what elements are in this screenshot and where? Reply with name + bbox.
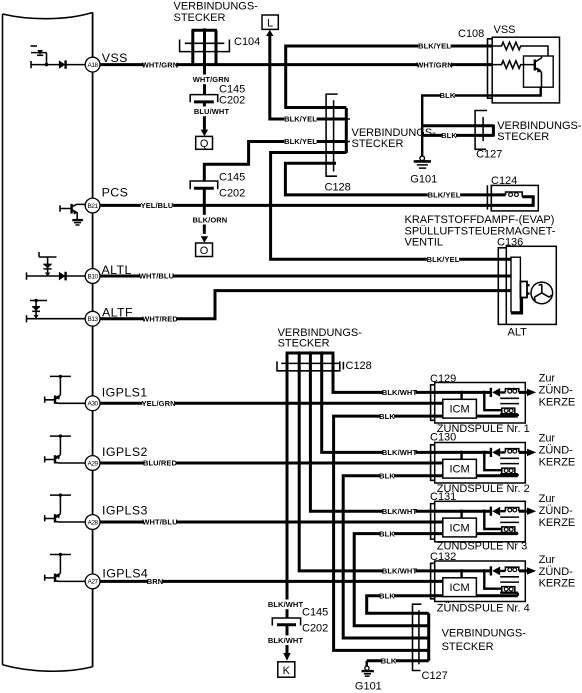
junction connector C128 (lower) xyxy=(277,351,340,371)
svg-text:BLK: BLK xyxy=(440,91,456,100)
shorting connector C127 (upper) xyxy=(475,111,493,150)
svg-text:Zur: Zur xyxy=(539,433,556,445)
C128 lower label leader xyxy=(342,362,344,370)
terminal box O xyxy=(196,243,213,257)
svg-text:C124: C124 xyxy=(491,175,517,187)
wire C128 pin3 to C145/C202 (BLK/YEL) xyxy=(204,142,346,182)
svg-text:SPÜLLUFTSTEUERMAGNET-: SPÜLLUFTSTEUERMAGNET- xyxy=(405,225,556,237)
coil 1 output arrow to spark plug xyxy=(519,389,536,396)
ALT internal thick link xyxy=(511,298,522,314)
IGPLS2 internal transistor (pin) xyxy=(45,434,86,463)
svg-text:BLK/WHT: BLK/WHT xyxy=(268,600,304,609)
wire label BLK/WHT at (400,511) xyxy=(382,506,418,516)
svg-text:A27: A27 xyxy=(88,579,99,586)
coil 1 primary winding xyxy=(500,389,519,393)
wire YEL/BLU PCS to C124 xyxy=(100,197,533,206)
svg-text:IGPLS4: IGPLS4 xyxy=(102,566,148,580)
svg-text:C131: C131 xyxy=(430,491,456,503)
IGPLS3 internal transistor (pin) xyxy=(45,493,86,522)
svg-text:WHT/RED: WHT/RED xyxy=(142,314,178,323)
svg-text:C145: C145 xyxy=(219,172,245,184)
C128 leg5 to coil 1 feed xyxy=(333,371,435,393)
ALTL internal zener+diode (B10) xyxy=(27,252,86,280)
svg-text:B21: B21 xyxy=(88,203,99,210)
coil 3 primary winding xyxy=(500,508,519,512)
coil 2 secondary winding xyxy=(500,468,518,476)
svg-text:KERZE: KERZE xyxy=(539,517,576,529)
coil 4 node dots and drops xyxy=(460,569,502,589)
wire label BLK at (387,476) xyxy=(379,471,395,481)
ALTF internal zener (B13) xyxy=(27,299,86,323)
svg-text:IGPLS2: IGPLS2 xyxy=(102,445,148,459)
wire label BLK/YEL at (434,46) xyxy=(418,41,451,51)
coil 3 BLK/WHT feed wire inside xyxy=(435,510,491,513)
wire BLK/YEL C108 branch down to C128 pin1 xyxy=(286,46,493,108)
wire label WHT/BLU at (160,522) xyxy=(142,517,177,527)
wire label BLK/YEL at (443,259) xyxy=(427,255,460,265)
wire label WHT/RED at (160,319) xyxy=(142,314,178,324)
wire C128 pin5 to C124 (BLK/YEL) xyxy=(285,163,505,195)
coil 4 output arrow to spark plug xyxy=(519,567,536,574)
wire IGPLS3 to ICM coil 3 xyxy=(100,521,443,524)
svg-text:ZÜND-: ZÜND- xyxy=(539,566,574,578)
solenoid coil inside C124 xyxy=(506,192,523,197)
diode D1 xyxy=(491,388,500,397)
wire WHT/BLU ALTL to ALT xyxy=(100,275,511,278)
ICM module U3 xyxy=(443,518,477,537)
svg-text:C108: C108 xyxy=(458,28,484,40)
terminal box K xyxy=(278,662,295,677)
svg-text:KERZE: KERZE xyxy=(539,578,576,590)
svg-text:KERZE: KERZE xyxy=(539,397,576,409)
svg-text:B13: B13 xyxy=(88,316,99,323)
svg-text:K: K xyxy=(283,665,291,677)
svg-text:C127: C127 xyxy=(476,148,502,160)
svg-text:O: O xyxy=(200,245,209,257)
svg-text:BLK: BLK xyxy=(379,591,395,600)
C128 leg2 to coil 4 feed xyxy=(299,371,435,571)
coil 3 output arrow to spark plug xyxy=(519,508,536,515)
svg-text:C104: C104 xyxy=(234,36,260,48)
svg-text:G101: G101 xyxy=(355,680,382,692)
terminal box Q xyxy=(196,136,213,150)
IGPLS1 internal transistor (pin) xyxy=(45,375,86,404)
svg-text:BLK/WHT: BLK/WHT xyxy=(268,636,304,645)
wire label WHT/GRN at (160,65) xyxy=(142,60,179,70)
arrow into [K] xyxy=(283,653,290,661)
wire from [L] box down to C128 pin2 xyxy=(270,35,347,119)
coil 1 BLK/WHT feed wire inside xyxy=(435,391,491,394)
ECU pin A30 xyxy=(85,396,100,411)
wire IGPLS2 to ICM coil 2 xyxy=(100,462,443,465)
arrow into [O] xyxy=(201,236,208,243)
svg-text:KRAFTSTOFFDAMPF-(EVAP): KRAFTSTOFFDAMPF-(EVAP) xyxy=(405,214,555,226)
coil 2 core lines xyxy=(500,458,519,463)
svg-text:C128: C128 xyxy=(346,360,372,372)
svg-text:C130: C130 xyxy=(430,432,456,444)
PCS internal transistor + ground (B21) xyxy=(60,204,85,225)
svg-text:Q: Q xyxy=(200,138,209,150)
coil 2 output arrow to spark plug xyxy=(519,449,536,456)
svg-text:VERBINDUNGS-: VERBINDUNGS- xyxy=(442,628,527,640)
svg-text:G101: G101 xyxy=(410,174,437,186)
svg-text:VENTIL: VENTIL xyxy=(405,237,444,249)
svg-text:VERBINDUNGS-: VERBINDUNGS- xyxy=(174,1,259,13)
svg-text:ICM: ICM xyxy=(450,464,470,476)
ECU pin A18 xyxy=(85,57,100,72)
inline connector C145/C202 below PCS wire junction xyxy=(190,181,218,189)
coil 1 BLK ground wire inside xyxy=(435,415,518,418)
svg-text:STECKER: STECKER xyxy=(442,641,494,653)
wire label YEL/GRN at (159,403) xyxy=(142,398,176,408)
svg-text:ICM: ICM xyxy=(450,404,470,416)
label Zur Zuendkerze 2 xyxy=(539,433,576,469)
wire label BLU/RED at (160,463) xyxy=(143,458,178,468)
ECU pin rail xyxy=(92,13,94,667)
svg-text:YEL/BLU: YEL/BLU xyxy=(141,201,174,210)
junction connector C128 (upper) xyxy=(270,94,350,176)
coil 4 BLK ground wire inside xyxy=(435,594,518,597)
ECU pin B21 xyxy=(85,198,100,213)
svg-text:WHT/GRN: WHT/GRN xyxy=(416,60,453,69)
wire label BLK/WHT at (400,571) xyxy=(382,566,418,576)
alternator C136 box xyxy=(498,246,556,324)
wire label BLK at (387,416) xyxy=(379,411,395,421)
svg-text:ZÜNDSPULE Nr. 4: ZÜNDSPULE Nr. 4 xyxy=(437,602,530,614)
svg-text:ALT: ALT xyxy=(508,327,528,339)
svg-text:PCS: PCS xyxy=(102,185,129,199)
wire label YEL/BLU at (157,205) xyxy=(141,201,174,211)
wire BLK coil2 return to C127 xyxy=(343,476,435,638)
svg-text:C202: C202 xyxy=(302,623,328,635)
diode D4 xyxy=(491,566,500,575)
svg-text:BRN: BRN xyxy=(147,577,164,586)
coil 2 primary winding xyxy=(500,449,519,453)
inline connector C145/C202 below C104 xyxy=(190,95,218,131)
svg-text:KERZE: KERZE xyxy=(539,457,576,469)
svg-text:IGPLS1: IGPLS1 xyxy=(102,386,148,400)
diode D2 xyxy=(491,448,500,457)
svg-text:BLK/YEL: BLK/YEL xyxy=(427,255,460,264)
wire BLK/ORN to [O] xyxy=(203,189,206,234)
wire BLK coil4 return to C127 xyxy=(367,596,435,614)
svg-text:A28: A28 xyxy=(88,519,99,526)
svg-text:BLK/WHT: BLK/WHT xyxy=(382,507,418,516)
EVAP purge solenoid valve C124 xyxy=(487,185,538,211)
wire label BLK/WHT at (286,604) xyxy=(268,600,304,610)
ICM module U4 xyxy=(443,578,477,597)
svg-text:BLK: BLK xyxy=(441,131,457,140)
svg-text:ZÜND-: ZÜND- xyxy=(539,505,574,517)
svg-text:STECKER: STECKER xyxy=(278,338,330,350)
svg-text:BLK/YEL: BLK/YEL xyxy=(284,115,317,124)
wire label WHT/GRN at (211,79) xyxy=(193,75,230,85)
svg-text:STECKER: STECKER xyxy=(174,12,226,24)
svg-text:ZÜND-: ZÜND- xyxy=(539,385,574,397)
wire BLK from C108 transistor xyxy=(492,87,541,95)
ALT internal regulator block xyxy=(520,282,529,298)
wire BLK branch to C127 (pin1) xyxy=(422,124,493,127)
svg-text:ICM: ICM xyxy=(450,522,470,534)
wire label WHT/BLU at (156,276) xyxy=(139,271,174,281)
junction connector C127 (lower) xyxy=(413,604,429,670)
coil 1 node dots and drops xyxy=(460,391,502,411)
svg-text:BLK/WHT: BLK/WHT xyxy=(382,388,418,397)
wire label BLK at (389,661) xyxy=(381,656,397,666)
C128 leg3 to coil 3 feed xyxy=(310,371,435,511)
wire label BLK/WHT at (400,392) xyxy=(382,388,418,398)
ignition coil unit 1 (C129) box xyxy=(431,383,526,424)
arrow into [Q] xyxy=(201,130,208,137)
svg-text:Zur: Zur xyxy=(539,493,556,505)
svg-text:C202: C202 xyxy=(219,94,245,106)
ICM module U1 xyxy=(443,399,477,418)
wire label WHT/GRN at (434,65) xyxy=(416,60,453,70)
svg-text:BLK: BLK xyxy=(379,471,395,480)
C128 leg1 down to C145/K xyxy=(286,371,289,618)
ECU pin A29 xyxy=(85,456,100,471)
svg-text:BLU/WHT: BLU/WHT xyxy=(194,107,230,116)
IGPLS4 internal transistor (pin) xyxy=(45,553,86,582)
wire BLK coil1 return to C127 xyxy=(334,416,435,650)
coil 4 BLK/WHT feed wire inside xyxy=(435,569,491,572)
svg-text:C145: C145 xyxy=(302,607,328,619)
wire WHT/GRN A18 to C108 xyxy=(100,63,492,66)
ground G101 (lower) xyxy=(362,661,374,676)
resistor inside C108 (upper) xyxy=(492,42,548,56)
wire label BLK at (387,534) xyxy=(379,529,395,539)
svg-text:C129: C129 xyxy=(430,373,456,385)
ALT fan/generator symbol xyxy=(531,282,553,304)
wire label BLK/WHT at (286,640) xyxy=(268,635,304,645)
svg-text:IGPLS3: IGPLS3 xyxy=(102,504,148,518)
label Zur Zuendkerze 1 xyxy=(539,373,576,409)
label Zur Zuendkerze 3 xyxy=(539,493,576,529)
ECU (Motorsteuergeraet) outline xyxy=(3,13,93,672)
coil 3 BLK ground wire inside xyxy=(435,532,518,535)
coil 3 core lines xyxy=(500,517,519,522)
svg-text:BLU/RED: BLU/RED xyxy=(143,459,178,468)
wire label BLK/YEL at (300,119) xyxy=(284,114,317,124)
svg-text:BLK/WHT: BLK/WHT xyxy=(382,567,418,576)
coil 2 BLK ground wire inside xyxy=(435,474,518,477)
svg-text:BLK/ORN: BLK/ORN xyxy=(192,215,227,224)
wire label BLK at (449,135) xyxy=(441,131,457,141)
ICM module U2 xyxy=(443,459,477,478)
svg-text:BLK: BLK xyxy=(379,412,395,421)
svg-text:BLK/YEL: BLK/YEL xyxy=(428,191,461,200)
svg-text:WHT/BLU: WHT/BLU xyxy=(142,518,177,527)
svg-text:A30: A30 xyxy=(88,401,99,408)
inline connector C145/C202 (bottom) xyxy=(272,618,300,654)
svg-text:STECKER: STECKER xyxy=(497,131,549,143)
svg-text:BLK/WHT: BLK/WHT xyxy=(382,448,418,457)
wire label BLK/ORN at (210,220) xyxy=(192,215,227,225)
wire BLK coil3 return to C127 xyxy=(354,534,435,626)
svg-text:BLK: BLK xyxy=(381,657,397,666)
wire label BLU/WHT at (212,111) xyxy=(194,107,230,117)
ECU pin B10 xyxy=(85,269,100,284)
transistor block inside C108 xyxy=(524,56,554,87)
junction connector C104 xyxy=(180,28,230,94)
wire IGPLS4 to ICM coil 4 xyxy=(100,580,443,583)
ignition coil unit 4 (C132) box xyxy=(431,561,526,602)
coil 4 core lines xyxy=(500,577,519,582)
coil 2 BLK/WHT feed wire inside xyxy=(435,451,491,454)
wire BLK C108 to ground G101 xyxy=(422,96,492,157)
svg-text:C127: C127 xyxy=(422,670,448,682)
coil 1 secondary winding xyxy=(500,408,518,416)
ALT internal connector strip xyxy=(511,257,520,312)
ECU pin B13 xyxy=(85,311,100,326)
svg-text:C132: C132 xyxy=(430,551,456,563)
svg-text:C128: C128 xyxy=(325,182,351,194)
VSS sensor C108 box xyxy=(488,37,560,103)
C128 leg4 to coil 2 feed xyxy=(322,371,435,453)
coil 4 secondary winding xyxy=(500,587,518,596)
ignition coil unit 3 (C131) box xyxy=(431,501,526,542)
wire label BLK/YEL at (300,142) xyxy=(284,137,317,147)
ground symbol G101 (upper) xyxy=(414,156,431,168)
svg-text:L: L xyxy=(267,18,273,30)
svg-text:BLK/YEL: BLK/YEL xyxy=(418,42,451,51)
svg-text:YEL/GRN: YEL/GRN xyxy=(142,399,176,408)
coil 4 primary winding xyxy=(500,567,519,571)
wire BLK branch to C127 (pin2) xyxy=(422,134,493,137)
svg-text:ZÜND-: ZÜND- xyxy=(539,445,574,457)
wire label BRN at (155,581) xyxy=(147,577,164,587)
ignition coil unit 2 (C130) box xyxy=(431,443,526,484)
svg-text:BLK: BLK xyxy=(379,529,395,538)
coil 3 secondary winding xyxy=(500,527,518,534)
svg-text:ICM: ICM xyxy=(450,582,470,594)
svg-text:VSS: VSS xyxy=(494,24,516,36)
coil 3 node dots and drops xyxy=(460,509,502,529)
wire label BLK at (448,96) xyxy=(440,91,456,101)
svg-text:BLK/YEL: BLK/YEL xyxy=(284,137,317,146)
wire WHT/RED ALTF to ALT xyxy=(100,291,511,319)
svg-text:Zur: Zur xyxy=(539,373,556,385)
svg-text:A29: A29 xyxy=(88,460,99,467)
wire BLK ground rung to C127 xyxy=(367,659,429,662)
svg-text:C136: C136 xyxy=(497,237,523,249)
ECU pin A27 xyxy=(85,574,100,589)
svg-text:WHT/BLU: WHT/BLU xyxy=(139,272,174,281)
coil 2 node dots and drops xyxy=(460,451,502,471)
wire label BLK/YEL at (444,195) xyxy=(428,190,461,200)
wire C128 pin4 to ALT (BLK/YEL) xyxy=(271,153,511,260)
wire label BLK/WHT at (400,452) xyxy=(382,448,418,458)
coil 1 core lines xyxy=(500,398,519,403)
diode D3 xyxy=(491,507,500,516)
terminal box L with up-arrow xyxy=(262,15,278,36)
svg-text:C202: C202 xyxy=(219,187,245,199)
VSS internal circuit (A18) xyxy=(31,46,86,69)
wire label BLK at (387,596) xyxy=(379,591,395,601)
svg-text:STECKER: STECKER xyxy=(352,138,404,150)
svg-text:A18: A18 xyxy=(88,62,99,69)
svg-text:Zur: Zur xyxy=(539,554,556,566)
ECU pin A28 xyxy=(85,515,100,530)
svg-text:WHT/GRN: WHT/GRN xyxy=(142,60,179,69)
resistor inside C108 (lower) xyxy=(492,61,535,69)
wire IGPLS1 to ICM coil 1 xyxy=(100,402,443,405)
svg-text:B10: B10 xyxy=(88,273,99,280)
label Zur Zuendkerze 4 xyxy=(539,554,576,590)
